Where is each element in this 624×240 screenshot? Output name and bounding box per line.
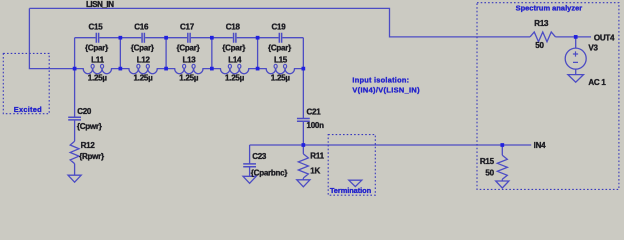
svg-text:IN4: IN4 <box>534 141 547 150</box>
svg-text:{Cpwr}: {Cpwr} <box>77 122 102 131</box>
svg-text:AC 1: AC 1 <box>588 78 606 87</box>
svg-text:{Cpar}: {Cpar} <box>176 43 199 52</box>
svg-text:50: 50 <box>535 41 544 50</box>
svg-text:C23: C23 <box>252 152 267 161</box>
svg-text:50: 50 <box>485 169 494 178</box>
svg-text:C21: C21 <box>307 108 322 117</box>
svg-text:Spectrum analyzer: Spectrum analyzer <box>516 3 583 12</box>
svg-text:C19: C19 <box>272 22 287 31</box>
svg-text:C20: C20 <box>77 107 92 116</box>
svg-text:1.25µ: 1.25µ <box>134 73 154 82</box>
svg-text:OUT4: OUT4 <box>594 33 615 42</box>
svg-text:C17: C17 <box>180 22 195 31</box>
svg-text:Excited: Excited <box>14 105 42 114</box>
svg-text:C18: C18 <box>226 22 241 31</box>
svg-text:Termination: Termination <box>330 186 372 195</box>
svg-text:L14: L14 <box>228 56 242 65</box>
svg-text:1K: 1K <box>310 166 320 175</box>
svg-text:100n: 100n <box>307 121 325 130</box>
svg-text:Input isolation:: Input isolation: <box>352 75 409 84</box>
svg-text:1.25µ: 1.25µ <box>179 73 199 82</box>
svg-text:L12: L12 <box>137 56 151 65</box>
svg-text:LISN_IN: LISN_IN <box>86 0 114 9</box>
svg-text:L15: L15 <box>274 56 288 65</box>
svg-text:1.25µ: 1.25µ <box>225 73 245 82</box>
svg-text:{Cpar}: {Cpar} <box>85 43 108 52</box>
svg-text:L11: L11 <box>91 56 104 65</box>
svg-text:R13: R13 <box>534 19 549 28</box>
svg-text:{Cpar}: {Cpar} <box>268 43 291 52</box>
svg-text:R11: R11 <box>310 151 324 160</box>
svg-text:V(IN4)/V(LISN_IN): V(IN4)/V(LISN_IN) <box>352 85 420 94</box>
svg-text:C16: C16 <box>134 22 149 31</box>
svg-text:L13: L13 <box>182 56 196 65</box>
svg-text:C15: C15 <box>89 22 104 31</box>
svg-text:1.25µ: 1.25µ <box>271 73 291 82</box>
svg-text:{Cpar}: {Cpar} <box>222 43 245 52</box>
svg-text:R15: R15 <box>480 157 495 166</box>
svg-text:{Cparbnc}: {Cparbnc} <box>251 169 288 178</box>
svg-text:{Cpar}: {Cpar} <box>131 43 154 52</box>
svg-text:V3: V3 <box>588 44 598 53</box>
svg-text:1.25µ: 1.25µ <box>88 73 108 82</box>
svg-text:{Rpwr}: {Rpwr} <box>79 152 104 161</box>
svg-text:R12: R12 <box>81 141 96 150</box>
